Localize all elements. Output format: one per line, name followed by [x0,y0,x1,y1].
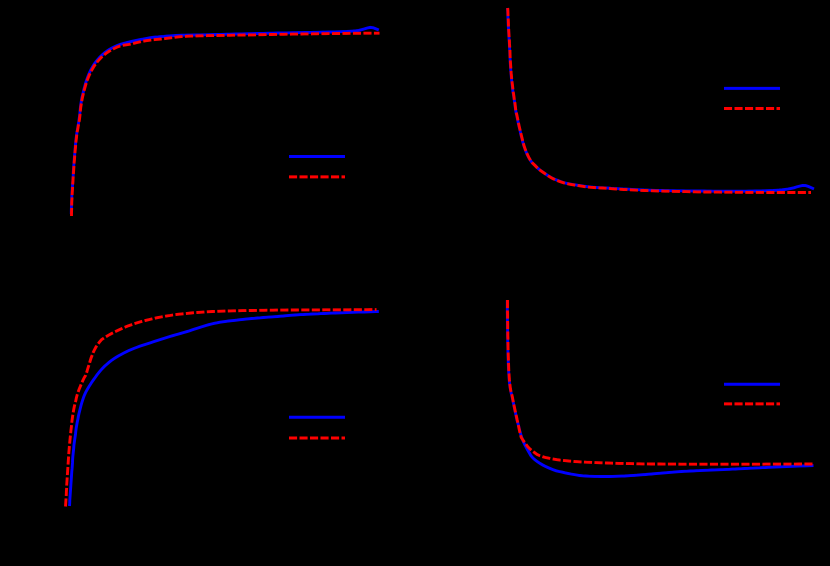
bottom-right legend blue line [724,383,780,386]
bottom-left red dashed curve [66,310,377,507]
bottom-left legend blue line [289,416,345,419]
top-right blue solid curve [508,8,815,191]
bottom-right blue solid curve [507,300,813,477]
top-left red dashed curve [72,33,380,216]
bottom-left legend red dashed line [289,437,345,440]
bottom-right legend red dashed line [724,402,780,405]
top-left blue solid curve [71,27,379,214]
top-right legend blue line [724,87,780,90]
top-left legend red dashed line [289,175,345,178]
bottom-right red dashed curve [508,300,814,464]
top-right red dashed curve [508,8,811,193]
top-left legend blue line [289,155,345,158]
top-right legend red dashed line [724,107,780,110]
bottom-left blue solid curve [70,312,379,507]
